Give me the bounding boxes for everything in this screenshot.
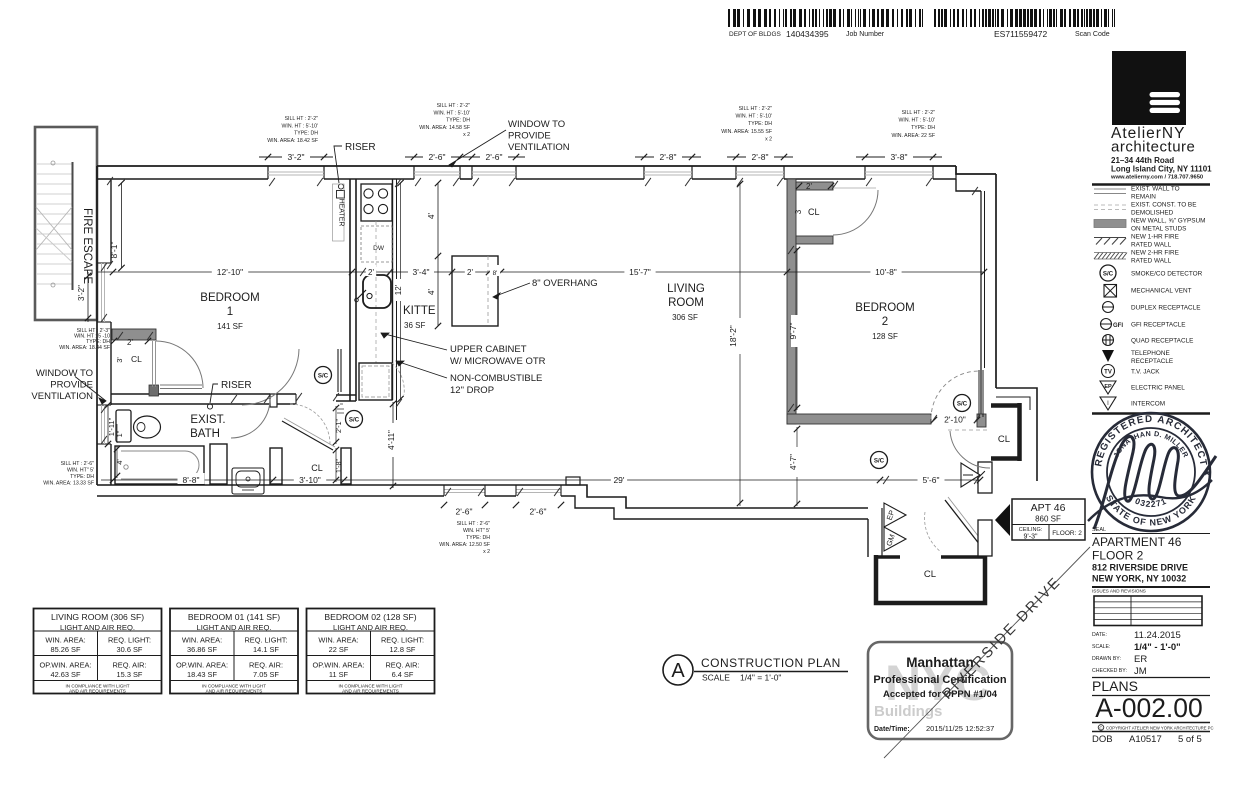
svg-text:141 SF: 141 SF [217,322,243,331]
svg-text:INTERCOM: INTERCOM [1131,400,1165,407]
kitchen vertical dims 4ft [427,180,441,329]
bedroom2 west new wall [787,179,796,424]
svg-text:2'-6": 2'-6" [429,152,446,162]
wall: bottom steps to entry [563,477,868,519]
svg-text:REQ. AIR:: REQ. AIR: [385,661,419,670]
entry closet door [925,497,982,552]
svg-text:OP.WIN. AREA:: OP.WIN. AREA: [176,661,228,670]
svg-text:CL: CL [808,207,820,217]
hall closet walls [282,404,351,484]
wall: bottom left exterior [97,444,563,496]
svg-text:3'-8": 3'-8" [891,152,908,162]
svg-text:JM: JM [1134,666,1147,677]
dim 4-11 [387,401,398,489]
svg-text:6.4 SF: 6.4 SF [392,670,414,679]
svg-text:1: 1 [227,306,233,318]
svg-text:SILL HT : 2'-6": SILL HT : 2'-6" [61,461,95,467]
issues and revisions table [1092,589,1202,626]
svg-text:NON-COMBUSTIBLE: NON-COMBUSTIBLE [450,373,542,384]
dim 2-10 bedroom2 door [931,415,980,425]
date / scale / drawn / checked [1092,630,1181,677]
svg-text:2'-6": 2'-6" [486,152,503,162]
svg-text:OP.WIN. AREA:: OP.WIN. AREA: [312,661,364,670]
light and air table: BEDROOM 01 (141 SF) [170,609,298,694]
legend: mechanical vent [1104,285,1192,298]
right closet door [948,430,990,468]
svg-text:8" OVERHANG: 8" OVERHANG [532,278,598,289]
right closet CL [991,403,1021,461]
svg-text:DRAWN BY:: DRAWN BY: [1092,656,1121,662]
upper cabinet note [381,333,546,367]
legend: telephone receptacle [1102,350,1173,365]
smoke/co detector living [871,452,888,469]
svg-text:BEDROOM 01 (141 SF): BEDROOM 01 (141 SF) [188,612,280,622]
wall: top right step [956,166,996,191]
legend: duplex receptacle [1102,302,1201,313]
svg-text:EXIST.: EXIST. [190,414,225,426]
svg-text:ON METAL STUDS: ON METAL STUDS [1131,226,1186,233]
svg-text:2'-8": 2'-8" [660,152,677,162]
entry wall west [868,508,882,557]
svg-text:EXIST. WALL TO: EXIST. WALL TO [1131,186,1180,193]
svg-text:SILL HT : 2'-6": SILL HT : 2'-6" [457,521,491,527]
svg-text:36 SF: 36 SF [404,321,425,330]
svg-text:DOB: DOB [1092,734,1113,745]
bedroom 1 label [200,292,259,331]
closet 3CL labels [794,182,834,217]
svg-text:4'-11": 4'-11" [387,430,396,450]
svg-text:FLOOR: 2: FLOOR: 2 [1052,530,1082,537]
svg-text:TV: TV [1104,370,1112,376]
svg-text:12.8 SF: 12.8 SF [390,645,416,654]
manhattan certification stamp [868,642,1012,739]
svg-text:PROVIDE: PROVIDE [50,380,93,391]
svg-text:HEATER: HEATER [338,199,345,227]
svg-text:9'-7": 9'-7" [788,323,798,340]
svg-text:TYPE: DH: TYPE: DH [294,131,318,137]
svg-text:REQ. LIGHT:: REQ. LIGHT: [244,636,287,645]
svg-text:CL: CL [131,354,142,364]
svg-text:CL: CL [924,569,936,580]
svg-text:FLOOR 2: FLOOR 2 [1092,549,1144,563]
dob / sheet counters [1092,734,1202,745]
door: bedroom1 leaf and swing [242,349,341,405]
svg-text:RISER: RISER [221,380,252,391]
svg-text:A: A [671,660,685,682]
riser shelf in bath [149,385,202,396]
svg-text:BEDROOM 02 (128 SF): BEDROOM 02 (128 SF) [324,612,416,622]
sill annotation: left bath window [43,461,94,487]
svg-text:REQ. LIGHT:: REQ. LIGHT: [108,636,151,645]
sill annotation: bedroom1 top window [267,116,318,144]
wall: right jog to street [996,388,1037,481]
svg-text:REMAIN: REMAIN [1131,194,1156,201]
svg-text:12': 12' [394,284,403,295]
svg-text:ES711559472: ES711559472 [994,29,1048,39]
svg-text:SILL HT : 2'-2": SILL HT : 2'-2" [739,106,773,112]
svg-text:DW: DW [373,245,385,252]
logo AtelierNY black square [1112,51,1186,125]
dims 2-1 and 1-8 hall [333,405,343,483]
svg-text:2'-8": 2'-8" [752,152,769,162]
svg-text:2': 2' [127,338,133,347]
svg-text:NEW YORK, NY 10032: NEW YORK, NY 10032 [1092,574,1186,584]
svg-text:WIN. AREA: 12.50 SF: WIN. AREA: 12.50 SF [439,542,490,548]
svg-text:WINDOW TO: WINDOW TO [508,119,565,130]
svg-text:306 SF: 306 SF [672,313,698,322]
riverside drive street line [884,547,1090,758]
svg-text:1'-11": 1'-11" [107,417,116,436]
svg-text:architecture: architecture [1111,139,1195,156]
svg-text:Date/Time:: Date/Time: [874,726,910,733]
svg-text:KITTE: KITTE [403,305,436,317]
svg-text:5 of 5: 5 of 5 [1178,734,1202,745]
light and air table: BEDROOM 02 (128 SF) [307,609,435,694]
svg-text:WIN. HT : 5'-10': WIN. HT : 5'-10' [736,114,772,120]
kitchen lower cabinet [359,363,404,400]
8in overhang note [493,278,598,299]
dimension row above top wall [259,150,942,162]
windows in top wall (glazing lines) [268,172,933,175]
wall: right exterior [981,174,996,427]
svg-text:2': 2' [368,268,374,277]
svg-text:12" DROP: 12" DROP [450,385,494,396]
svg-text:Scan Code: Scan Code [1075,31,1110,38]
svg-text:2'-6": 2'-6" [530,507,547,517]
svg-text:AND AIR REQUIREMENTS: AND AIR REQUIREMENTS [342,689,399,694]
svg-text:140434395: 140434395 [786,29,829,39]
svg-text:WIN. AREA: 15.55 SF: WIN. AREA: 15.55 SF [721,129,772,135]
svg-text:BEDROOM: BEDROOM [855,302,914,314]
toilet [116,410,161,442]
legend: electric panel [1100,381,1185,394]
svg-text:9'-3": 9'-3" [1024,534,1038,541]
living room label [667,283,705,322]
svg-text:PLANS: PLANS [1092,678,1138,694]
stove [361,184,392,221]
svg-text:PROVIDE: PROVIDE [508,131,551,142]
svg-text:REQ. LIGHT:: REQ. LIGHT: [381,636,424,645]
dishwasher [361,226,392,262]
bedroom2 south new wall [787,414,986,427]
svg-text:2'-10": 2'-10" [944,415,966,425]
bottom window dims 2-6 [430,502,575,517]
svg-text:ROOM: ROOM [668,297,704,309]
sill annotation: kitchen windows [419,103,470,138]
svg-text:4': 4' [115,459,124,465]
apartment entry door jambs [978,462,992,556]
electric panel / gas meter triangles [884,503,906,551]
svg-text:3: 3 [794,209,803,214]
wall: top exterior outer face [97,165,956,167]
svg-text:REQ. AIR:: REQ. AIR: [112,661,146,670]
heater label [333,184,345,241]
non-combustible note [396,361,542,396]
svg-text:W/ MICROWAVE OTR: W/ MICROWAVE OTR [450,356,546,367]
address block [1110,156,1212,181]
lavatory sink [232,468,264,494]
construction plan title mark [663,655,848,685]
rule under logo [1092,183,1210,186]
svg-text:RATED WALL: RATED WALL [1131,258,1172,265]
svg-text:VENTILATION: VENTILATION [31,391,93,402]
svg-text:TYPE: DH: TYPE: DH [70,474,94,480]
svg-text:NEW 2-HR FIRE: NEW 2-HR FIRE [1131,250,1179,257]
barcode: scan code [934,9,1115,39]
svg-text:30.6 SF: 30.6 SF [117,645,143,654]
svg-text:3'-4": 3'-4" [413,267,430,277]
svg-text:WINDOW TO: WINDOW TO [36,368,93,379]
svg-text:VENTILATION: VENTILATION [508,142,570,153]
bedroom1 closet new wall [112,329,156,340]
svg-text:BEDROOM: BEDROOM [200,292,259,304]
svg-text:2': 2' [806,182,812,191]
svg-text:WIN. AREA: 13.33 SF: WIN. AREA: 13.33 SF [43,481,94,487]
svg-text:REQ. AIR:: REQ. AIR: [249,661,283,670]
svg-text:GFI: GFI [1113,323,1123,329]
kitchen island [452,256,498,326]
apt 46 info box [1012,499,1085,541]
svg-text:MECHANICAL VENT: MECHANICAL VENT [1131,287,1192,294]
dim 9-7 bedroom2 [788,247,802,411]
kitchen sink [355,275,391,308]
svg-text:WIN. AREA: 14.58 SF: WIN. AREA: 14.58 SF [419,125,470,131]
svg-text:CEILING:: CEILING: [1019,527,1043,533]
svg-text:DEPT OF BLDGS: DEPT OF BLDGS [729,31,782,38]
svg-text:TYPE: DH: TYPE: DH [748,121,772,127]
svg-text:14.1 SF: 14.1 SF [253,645,279,654]
light and air table: LIVING ROOM (306 SF) [34,609,162,694]
svg-text:TYPE: DH: TYPE: DH [466,535,490,541]
smoke/co detector bedroom2 [954,395,971,412]
svg-text:DUPLEX RECEPTACLE: DUPLEX RECEPTACLE [1131,304,1201,311]
svg-text:2015/11/25 12:52:37: 2015/11/25 12:52:37 [926,724,994,733]
main horizontal dimension line y272 [97,265,987,277]
svg-text:SCALE: SCALE [702,673,730,683]
svg-text:EXIST. CONST. TO BE: EXIST. CONST. TO BE [1131,202,1196,209]
svg-text:x 2: x 2 [765,136,772,142]
logo wordmark [1111,125,1195,156]
svg-text:LIVING: LIVING [667,283,705,295]
fire escape stair treads [37,164,72,284]
svg-text:11.24.2015: 11.24.2015 [1134,630,1181,641]
svg-text:BATH: BATH [190,428,220,440]
svg-text:SILL HT : 2'-2": SILL HT : 2'-2" [437,103,471,109]
svg-text:x 2: x 2 [483,549,490,555]
smoke/co detector bath hall [346,411,363,428]
svg-text:18.43 SF: 18.43 SF [187,670,217,679]
wall: top exterior inner face segments [97,166,956,179]
door: bath (swing) [231,399,270,438]
svg-text:4': 4' [427,289,436,295]
svg-text:2'-1": 2'-1" [336,419,343,433]
svg-text:EP: EP [1104,384,1112,390]
svg-text:WIN. HT" 5': WIN. HT" 5' [463,528,490,534]
door: bedroom2 leaf [931,370,983,419]
svg-text:42.63 SF: 42.63 SF [51,670,81,679]
svg-text:APT 46: APT 46 [1031,502,1066,514]
riser leader bath [207,380,251,409]
svg-text:GFI RECEPTACLE: GFI RECEPTACLE [1131,321,1186,328]
svg-text:128 SF: 128 SF [872,332,898,341]
svg-text:812 RIVERSIDE DRIVE: 812 RIVERSIDE DRIVE [1092,563,1188,573]
svg-text:SCALE:: SCALE: [1092,644,1110,650]
entry closet (lower CL) [874,555,985,603]
svg-text:CONSTRUCTION PLAN: CONSTRUCTION PLAN [701,656,841,670]
legend: new 1-hr fire rated wall [1094,234,1179,249]
svg-text:SILL HT : 2'-2": SILL HT : 2'-2" [902,110,936,116]
closet 3CL door [833,188,878,235]
window to provide ventilation (top) [449,119,570,167]
svg-text:CHECKED BY:: CHECKED BY: [1092,668,1127,674]
kitchen 12ft dim [394,180,405,402]
legend: tv jack [1102,365,1161,378]
svg-text:Professional Certification: Professional Certification [873,674,1007,686]
demolition slashes other [101,177,980,496]
legend: new wall gypsum [1094,218,1205,233]
svg-text:T.V. JACK: T.V. JACK [1131,368,1160,375]
telephone triangle at entry [961,463,985,487]
svg-text:ISSUES AND REVISIONS: ISSUES AND REVISIONS [1092,589,1146,594]
entrance arrow [995,504,1010,536]
wall stub right of lav [270,448,282,484]
bathtub [115,446,204,484]
legend: quad receptacle [1102,335,1193,346]
kitchenette label [403,305,436,330]
svg-text:QUAD RECEPTACLE: QUAD RECEPTACLE [1131,337,1193,344]
svg-text:4': 4' [427,213,436,219]
svg-text:LIGHT AND AIR REQ.: LIGHT AND AIR REQ. [197,623,272,632]
barcode: job number [728,9,923,39]
window to provide ventilation (left) [31,368,106,404]
svg-text:DEMOLISHED: DEMOLISHED [1131,210,1174,217]
svg-text:RECEPTACLE: RECEPTACLE [1131,358,1173,365]
svg-text:WIN. HT : 5'-10': WIN. HT : 5'-10' [899,118,935,124]
fire escape enclosure [35,127,97,320]
svg-text:ER: ER [1134,654,1147,665]
copyright strip [1092,723,1214,732]
bedroom1 closet door [153,341,204,388]
svg-text:85.26 SF: 85.26 SF [51,645,81,654]
svg-text:1": 1" [117,430,124,437]
svg-text:WIN. HT" 5': WIN. HT" 5' [67,468,94,474]
svg-text:1/4" = 1'-0": 1/4" = 1'-0" [740,673,781,683]
svg-text:Buildings: Buildings [874,703,942,720]
svg-text:S/C: S/C [1103,270,1114,277]
svg-text:OP.WIN. AREA:: OP.WIN. AREA: [39,661,91,670]
svg-text:LIGHT AND AIR REQ.: LIGHT AND AIR REQ. [333,623,408,632]
counter centerline [375,221,377,363]
wall stub tub end [210,444,227,484]
sill annotation: bottom windows [439,521,490,555]
svg-text:S/C: S/C [957,400,968,407]
fire escape cross brace [36,207,72,262]
svg-text:COPYRIGHT ATELIER NEW YORK ARC: COPYRIGHT ATELIER NEW YORK ARCHITECTURE … [1106,726,1214,731]
svg-text:CL: CL [998,434,1010,445]
legend: intercom [1100,397,1165,410]
exist bath label [190,414,225,440]
svg-text:ELECTRIC PANEL: ELECTRIC PANEL [1131,384,1185,391]
demolition slashes top wall [269,178,932,186]
wall: left exterior [97,166,111,485]
wall: kitchen west riser chase [336,179,356,401]
svg-text:11 SF: 11 SF [329,670,349,679]
svg-text:1/4" - 1'-0": 1/4" - 1'-0" [1134,642,1181,653]
svg-text:3'-2": 3'-2" [288,152,305,162]
svg-text:CL: CL [311,463,323,473]
smoke/co detector bedroom1 hall [315,367,332,384]
riser label top [334,142,376,183]
legend: gfi receptacle [1100,319,1186,330]
svg-text:www.atelierny.com / 718.707.96: www.atelierny.com / 718.707.9650 [1110,175,1203,181]
svg-text:SILL HT : 2'-2": SILL HT : 2'-2" [285,116,319,122]
svg-text:Long Island City, NY 11101: Long Island City, NY 11101 [1111,165,1212,174]
svg-text:7.05 SF: 7.05 SF [253,670,279,679]
sill annotation: bedroom2 window [891,110,935,139]
svg-text:29': 29' [613,475,624,485]
svg-text:WIN. AREA:: WIN. AREA: [182,636,222,645]
svg-text:WIN. HT : 5'-10': WIN. HT : 5'-10' [434,110,470,116]
svg-text:12'-10": 12'-10" [217,267,243,277]
svg-text:10'-8": 10'-8" [875,267,897,277]
svg-text:A10517: A10517 [1129,734,1162,745]
svg-text:WIN. AREA: 22 SF: WIN. AREA: 22 SF [891,133,935,139]
svg-text:36.86 SF: 36.86 SF [187,645,217,654]
svg-text:Job Number: Job Number [846,31,885,38]
svg-text:LIVING ROOM (306 SF): LIVING ROOM (306 SF) [51,612,144,622]
dim 18-2 living [728,181,746,506]
svg-text:RATED WALL: RATED WALL [1131,242,1172,249]
toilet dims [114,424,124,479]
wall: bath north / bedroom1 south [111,394,296,407]
svg-text:S/C: S/C [349,416,360,423]
sill annotation: left bedroom1 window [59,328,110,351]
svg-text:22 SF: 22 SF [329,645,349,654]
svg-text:2'-6": 2'-6" [456,507,473,517]
legend: exist wall to remain [1094,186,1180,201]
svg-text:WIN. AREA:: WIN. AREA: [45,636,85,645]
svg-text:15.3 SF: 15.3 SF [117,670,143,679]
svg-text:TELEPHONE: TELEPHONE [1131,350,1170,357]
vertical dim 8-1 [109,180,125,271]
svg-text:S/C: S/C [874,457,885,464]
bedroom 2 label [855,302,914,341]
svg-text:2: 2 [882,316,888,328]
svg-text:8': 8' [493,270,498,277]
svg-text:NEW 1-HR FIRE: NEW 1-HR FIRE [1131,234,1179,241]
svg-text:3': 3' [115,357,124,363]
svg-text:SMOKE/CO DETECTOR: SMOKE/CO DETECTOR [1131,270,1203,277]
vertical dim 3-2 left [77,272,91,322]
dim 4-7 [789,426,802,507]
svg-text:5'-6": 5'-6" [923,475,940,485]
fire escape rail [51,161,73,290]
bedroom1 closet labels [111,338,151,364]
svg-text:x 2: x 2 [463,132,470,138]
legend: smoke/co detector [1100,265,1203,281]
demo dashes near detector [337,404,344,413]
svg-text:WIN. HT : 5'-10': WIN. HT : 5'-10' [282,123,318,129]
svg-text:TYPE: DH: TYPE: DH [446,118,470,124]
svg-text:AND AIR REQUIREMENTS: AND AIR REQUIREMENTS [206,689,263,694]
svg-text:S/C: S/C [318,372,329,379]
svg-text:LIGHT AND AIR REQ.: LIGHT AND AIR REQ. [60,623,135,632]
svg-text:APARTMENT 46: APARTMENT 46 [1092,535,1182,549]
wall: kitchen east [393,179,397,420]
svg-text:DATE:: DATE: [1092,632,1107,638]
svg-text:WIN. AREA:: WIN. AREA: [318,636,358,645]
svg-text:8'-1": 8'-1" [109,242,119,259]
